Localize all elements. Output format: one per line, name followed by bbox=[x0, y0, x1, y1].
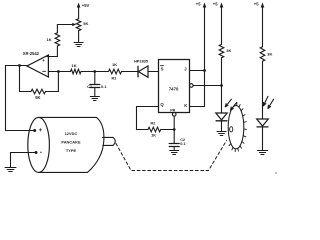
wire pot to ground bbox=[78, 31, 80, 43]
svg-text:K: K bbox=[184, 103, 188, 108]
wire Q to R2 bbox=[137, 107, 159, 130]
svg-text:3K: 3K bbox=[226, 48, 231, 53]
resistor 3K (right) bbox=[260, 47, 272, 62]
IC U1 7470 bbox=[159, 60, 190, 113]
chopper wheel on motor shaft bbox=[228, 103, 246, 152]
svg-text:1K: 1K bbox=[112, 62, 117, 67]
svg-text:3K: 3K bbox=[267, 51, 272, 56]
capacitor C1 0.1 bbox=[87, 72, 107, 97]
node minus-input bbox=[57, 70, 60, 73]
svg-text:1K: 1K bbox=[47, 37, 52, 42]
node J rail bbox=[203, 69, 206, 72]
svg-text:Q: Q bbox=[160, 102, 164, 107]
+5V supply (pot) bbox=[77, 3, 90, 19]
op-amp XR-2542 bbox=[23, 51, 49, 77]
svg-text:+5: +5 bbox=[213, 2, 218, 7]
resistor 3K (left) bbox=[219, 44, 231, 57]
light arrows (left) bbox=[225, 99, 236, 110]
potentiometer 5K bbox=[60, 19, 89, 31]
svg-text:1K: 1K bbox=[151, 134, 156, 138]
bubble Q-bar output bbox=[190, 84, 194, 88]
+5 supply (left photodiode) bbox=[213, 2, 224, 45]
wire wiper to 1K bbox=[57, 25, 60, 33]
motor shaft bbox=[103, 137, 116, 145]
+5 rail (J/K) bbox=[196, 2, 207, 107]
motor M1 12VDC pancake bbox=[28, 117, 104, 172]
ground (pot) bbox=[74, 43, 83, 47]
wire to C1 node bbox=[81, 71, 109, 73]
svg-text:5K: 5K bbox=[35, 95, 40, 100]
svg-text:TYPE: TYPE bbox=[66, 148, 77, 153]
node output-feedback bbox=[18, 64, 21, 67]
resistor R1 1K bbox=[109, 62, 122, 81]
ground (C2) bbox=[170, 151, 179, 155]
resistor 1K (reference) bbox=[47, 33, 60, 46]
wire motor to ground bbox=[11, 153, 37, 168]
svg-text:S: S bbox=[161, 67, 164, 72]
svg-text:HP2835: HP2835 bbox=[134, 58, 149, 63]
ground (motor) bbox=[5, 168, 16, 172]
wire 3K to photodiode (right) bbox=[262, 61, 264, 119]
svg-text:12VDC: 12VDC bbox=[65, 131, 78, 136]
wire Q-bar to LED node bbox=[193, 85, 221, 87]
svg-text:1K: 1K bbox=[72, 63, 77, 68]
resistor 1K (output row) bbox=[71, 63, 82, 74]
svg-text:+5V: +5V bbox=[82, 3, 90, 8]
svg-text:0.1: 0.1 bbox=[101, 84, 107, 89]
svg-text:+: + bbox=[42, 58, 45, 63]
motor terminal - (bottom) bbox=[35, 151, 42, 154]
svg-text:5K: 5K bbox=[83, 21, 88, 26]
svg-text:C1: C1 bbox=[87, 84, 93, 89]
node C1 bbox=[93, 70, 96, 73]
svg-text:R2: R2 bbox=[151, 122, 156, 126]
photodiode D1 bbox=[216, 113, 227, 132]
wire PR pin bbox=[173, 116, 175, 129]
diode HP2835 bbox=[134, 58, 149, 77]
photodiode D2 bbox=[257, 119, 269, 151]
ground (right photodiode) bbox=[258, 151, 268, 155]
wire K to +5 rail bbox=[190, 106, 205, 108]
wire R2 to node bbox=[161, 129, 175, 131]
wire op-amp to 1K bbox=[48, 71, 70, 73]
svg-text:+5: +5 bbox=[196, 2, 201, 7]
svg-text:R1: R1 bbox=[112, 77, 117, 81]
svg-text:PANCAKE: PANCAKE bbox=[61, 139, 81, 144]
mechanical coupling (dashed) bbox=[116, 141, 227, 171]
wire 1K to op-amp + input bbox=[47, 46, 58, 57]
wire diode to IC S pin bbox=[148, 71, 159, 73]
ground (left photodiode) bbox=[217, 132, 226, 136]
wire J to +5 rail bbox=[190, 70, 205, 72]
svg-text:PR: PR bbox=[170, 108, 175, 112]
capacitor C2 0.1 bbox=[169, 130, 185, 151]
bubble PR bbox=[172, 113, 176, 117]
+5 supply (right photodiode) bbox=[254, 2, 264, 47]
feedback resistor 5K bbox=[20, 66, 59, 101]
svg-text:0.1: 0.1 bbox=[180, 142, 185, 146]
wire 3K to photodiode bbox=[221, 58, 223, 113]
wire R1 to diode bbox=[122, 71, 139, 73]
motor terminal + (top) bbox=[33, 129, 41, 133]
node PR-R2-C2 bbox=[173, 128, 176, 131]
svg-text:J: J bbox=[184, 67, 187, 72]
svg-text:+5: +5 bbox=[254, 2, 259, 7]
svg-text:XR-2542: XR-2542 bbox=[23, 51, 40, 56]
wire op-amp output / left rail to motor bbox=[6, 66, 35, 131]
node LED left bbox=[220, 84, 223, 87]
light arrows (right) bbox=[263, 96, 273, 108]
resistor R2 1K bbox=[148, 122, 161, 138]
ground (C1) bbox=[90, 97, 99, 101]
scan smudge bbox=[275, 172, 277, 174]
svg-text:7470: 7470 bbox=[169, 87, 179, 92]
